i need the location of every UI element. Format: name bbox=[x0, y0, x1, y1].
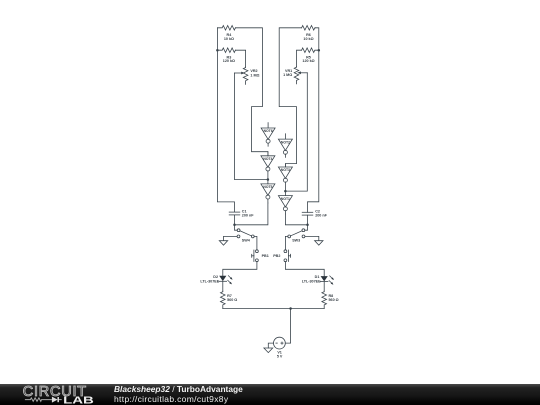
label C2 bbox=[315, 209, 327, 217]
label D2 bbox=[200, 275, 219, 284]
label R6 bbox=[303, 33, 313, 41]
svg-text:NOT3: NOT3 bbox=[281, 168, 290, 172]
wire: R3 right to VR2 top bbox=[236, 50, 246, 67]
svg-text:LTL-307EE: LTL-307EE bbox=[302, 279, 321, 283]
wire: VR2 wiper down to NOT4/NOT5 junction bbox=[234, 73, 268, 180]
svg-text:120 kΩ: 120 kΩ bbox=[223, 59, 235, 63]
ground (SW4) bbox=[219, 241, 227, 246]
potentiometer VR1 bbox=[294, 67, 307, 84]
svg-text:SW4: SW4 bbox=[242, 238, 251, 242]
voltage source V1 bbox=[274, 337, 286, 349]
label R5 bbox=[302, 55, 314, 63]
inverter NOT6 bbox=[261, 123, 275, 147]
wire: SW4 left contact to ground bbox=[224, 236, 238, 240]
node: bottom rail to source junction bbox=[289, 307, 292, 310]
svg-text:10 kΩ: 10 kΩ bbox=[303, 37, 313, 41]
ground (SW3) bbox=[315, 241, 323, 246]
svg-text:SW3: SW3 bbox=[292, 238, 300, 242]
wire: bottom rail R7 to R8 bbox=[223, 308, 324, 310]
svg-text:NOT1: NOT1 bbox=[281, 197, 290, 201]
node: NOT4 out / NOT5 in / VR2 wiper junction bbox=[267, 178, 270, 181]
svg-text:1 MΩ: 1 MΩ bbox=[250, 73, 259, 77]
resistor R8 bbox=[322, 291, 327, 308]
wire: V1 minus terminal to ground bbox=[268, 343, 273, 348]
resistor R7 bbox=[221, 291, 226, 308]
inverter NOT2 bbox=[278, 134, 292, 158]
footer bar bbox=[0, 384, 540, 405]
wire: right rail from R6/R5 right down to C2 bbox=[308, 28, 319, 213]
resistor R6 bbox=[302, 26, 316, 31]
svg-text:200 nF: 200 nF bbox=[315, 214, 327, 218]
wire: SW4 right contact to PB1 bbox=[254, 236, 257, 249]
LED D1 bbox=[320, 276, 334, 291]
svg-text:D2: D2 bbox=[213, 275, 218, 279]
wire: R6 left lead down, jog to inv NOT3 input bbox=[279, 28, 301, 167]
label V1 bbox=[277, 350, 283, 358]
svg-text:LAB: LAB bbox=[63, 394, 94, 405]
svg-text:5 V: 5 V bbox=[277, 354, 283, 358]
label D1 bbox=[302, 275, 321, 284]
label VR2 bbox=[250, 69, 259, 77]
capacitor C2 bbox=[302, 212, 313, 225]
wire: left rail from R4/R3 left down to C1 bbox=[217, 28, 234, 212]
potentiometer VR2 bbox=[234, 67, 248, 84]
svg-text:NOT6: NOT6 bbox=[264, 129, 273, 133]
label R7 bbox=[227, 294, 237, 302]
svg-text:120 kΩ: 120 kΩ bbox=[302, 59, 314, 63]
label R4 bbox=[224, 33, 234, 41]
wire: R4 right lead down, jog to inv NOT6 column bbox=[236, 28, 268, 156]
pushbutton PB2 bbox=[284, 250, 291, 262]
svg-text:NOT4: NOT4 bbox=[263, 157, 272, 161]
svg-text:D1: D1 bbox=[315, 275, 320, 279]
label R8 bbox=[329, 294, 339, 302]
svg-text:10 kΩ: 10 kΩ bbox=[224, 37, 234, 41]
pushbutton PB1 bbox=[252, 250, 259, 262]
node: R3 left junction bbox=[216, 49, 219, 52]
wire: R5 left to VR1 top bbox=[297, 50, 302, 66]
label VR1 bbox=[283, 69, 292, 77]
resistor R3 bbox=[217, 48, 235, 53]
resistor R4 bbox=[217, 26, 235, 31]
wire: VR1 wiper down to NOT3/NOT1 junction bbox=[285, 73, 307, 191]
wire: SW3 right contact to ground bbox=[305, 236, 319, 240]
svg-text:NOT2: NOT2 bbox=[281, 140, 290, 144]
ground (V1) bbox=[264, 348, 273, 353]
inverter NOT4 bbox=[261, 152, 275, 180]
wire: NOT5 output down and left to C1 bottom bbox=[235, 203, 268, 225]
node: C1 / NOT5 / SW4 junction bbox=[233, 224, 236, 227]
wire: NOT1 output down and right to C2 bottom bbox=[285, 214, 307, 225]
svg-text:560 Ω: 560 Ω bbox=[227, 298, 237, 302]
CircuitLab logo bbox=[0, 384, 110, 405]
node: R5 right junction bbox=[318, 49, 321, 52]
svg-text:560 Ω: 560 Ω bbox=[329, 298, 339, 302]
label C1 bbox=[242, 209, 254, 217]
label R3 bbox=[223, 55, 235, 63]
node: C2 / NOT1 / SW3 junction bbox=[306, 224, 309, 227]
wire: PB1 bottom to LED D2 bbox=[223, 262, 257, 276]
svg-text:NOT5: NOT5 bbox=[263, 185, 272, 189]
resistor R5 bbox=[302, 48, 319, 53]
wire: PB2 bottom to LED D1 bbox=[285, 262, 324, 276]
inverter NOT1 bbox=[278, 191, 292, 214]
svg-text:1 MΩ: 1 MΩ bbox=[283, 73, 292, 77]
switch SW3 bbox=[288, 225, 308, 238]
footer text bbox=[114, 384, 243, 394]
LED D2 bbox=[219, 276, 233, 292]
switch SW4 bbox=[235, 225, 255, 238]
svg-text:LTL-307EE: LTL-307EE bbox=[200, 279, 219, 283]
inverter NOT3 bbox=[278, 164, 292, 192]
inverter NOT5 bbox=[261, 180, 275, 204]
capacitor C1 bbox=[229, 212, 240, 225]
svg-text:200 nF: 200 nF bbox=[242, 214, 254, 218]
node: NOT3 out / NOT1 in / VR1 wiper junction bbox=[284, 190, 287, 193]
svg-text:PB1: PB1 bbox=[262, 254, 269, 258]
wire: SW3 left contact to PB2 bbox=[285, 236, 287, 249]
svg-text:PB2: PB2 bbox=[273, 254, 280, 258]
wire: junction down to V1 plus terminal bbox=[285, 309, 290, 344]
